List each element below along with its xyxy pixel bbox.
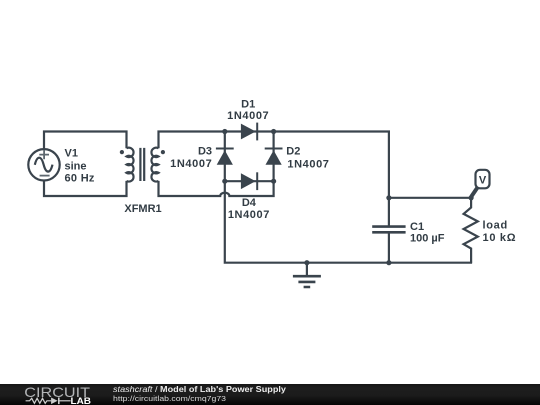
transformer primary phase dot: [120, 150, 124, 154]
ground symbol: [306, 263, 308, 277]
svg-text:http://circuitlab.com/cmq7g73: http://circuitlab.com/cmq7g73: [113, 394, 226, 403]
node dot load top: [469, 195, 474, 200]
svg-text:D3: D3: [198, 145, 212, 157]
voltage source V1 plus sign: [39, 150, 49, 159]
capacitor C1 plates: [372, 227, 405, 233]
svg-text:V1: V1: [65, 147, 78, 159]
voltmeter probe stem: [471, 187, 478, 197]
diode D3 triangle and bar: [217, 150, 233, 165]
node dot C bottom-left bridge: [222, 179, 227, 184]
svg-text:D1: D1: [241, 98, 255, 110]
node dot B top-right bridge: [271, 129, 276, 134]
wire right rail vertical lower: [388, 232, 390, 262]
svg-text:LAB: LAB: [71, 396, 92, 405]
wire bridge left vertical and bottom rail: [225, 132, 472, 263]
svg-text:1N4007: 1N4007: [228, 209, 270, 221]
wire secondary bottom with hop: [159, 181, 274, 196]
svg-text:V: V: [479, 174, 487, 186]
logo doodle wire resistor diode: [26, 398, 71, 403]
node dot output at C1 top: [386, 195, 391, 200]
transformer secondary phase dot: [161, 150, 165, 154]
diode D2 triangle and bar: [266, 150, 282, 165]
wire secondary top to bridge and right rail: [159, 132, 389, 227]
node dot A top-left bridge: [222, 129, 227, 134]
svg-text:10 kΩ: 10 kΩ: [483, 232, 517, 244]
wire output node to load: [389, 197, 471, 199]
svg-text:D4: D4: [242, 197, 257, 209]
svg-text:D2: D2: [286, 146, 300, 158]
voltage source V1 minus sign: [40, 175, 50, 177]
svg-text:1N4007: 1N4007: [227, 110, 269, 122]
svg-text:stashcraft / Model of Lab's Po: stashcraft / Model of Lab's Power Supply: [113, 385, 287, 394]
transformer XFMR1 core: [140, 148, 144, 181]
node dot D bottom-right bridge: [271, 179, 276, 184]
resistor load zigzag: [464, 198, 478, 263]
wire V1 loop top: [44, 132, 127, 150]
svg-text:load: load: [483, 219, 508, 231]
voltage source V1 sine wave: [35, 158, 53, 172]
transformer XFMR1 secondary coil: [151, 148, 158, 182]
node dot ground: [304, 260, 309, 265]
diode D4 triangle and bar: [241, 173, 256, 189]
diode D1 triangle and bar: [241, 124, 256, 140]
voltage source V1 circle: [28, 149, 59, 180]
svg-text:100 µF: 100 µF: [410, 232, 445, 244]
node dot C1 bottom: [386, 260, 391, 265]
voltmeter probe V box: [476, 170, 490, 189]
svg-text:C1: C1: [410, 221, 424, 233]
svg-text:XFMR1: XFMR1: [124, 203, 161, 215]
svg-text:60 Hz: 60 Hz: [65, 173, 95, 185]
svg-text:1N4007: 1N4007: [287, 158, 329, 170]
wire bridge bottom row D4: [225, 180, 274, 182]
wire V1 loop bottom: [44, 181, 127, 197]
svg-text:1N4007: 1N4007: [170, 158, 212, 170]
transformer XFMR1 primary coil: [127, 148, 134, 182]
wire bridge right vertical: [273, 132, 275, 182]
svg-text:sine: sine: [65, 161, 87, 173]
